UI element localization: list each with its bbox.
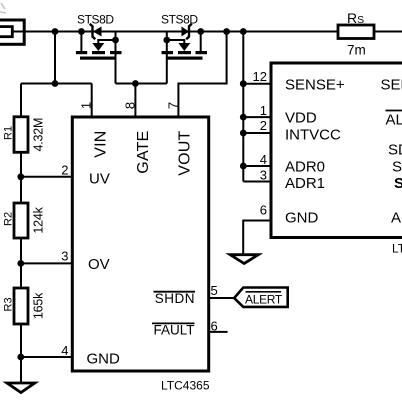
wire pin4 ADR0 [243, 165, 271, 167]
svg-text:SCL: SCL [394, 175, 402, 192]
node GATE junction dot [132, 80, 139, 87]
svg-text:ALERT: ALERT [386, 112, 402, 129]
wire Q2 drain stub [200, 32, 202, 53]
svg-text:4.32M: 4.32M [32, 118, 46, 152]
svg-text:8: 8 [122, 102, 137, 109]
svg-text:INTVCC: INTVCC [285, 127, 341, 144]
svg-text:6: 6 [260, 203, 267, 218]
svg-text:ADR1: ADR1 [285, 175, 325, 192]
node Q1 source junction dot on rail [78, 28, 85, 35]
Q1 body bar [92, 51, 105, 54]
resistor R2 [14, 203, 28, 238]
svg-text:12: 12 [253, 69, 267, 84]
svg-text:R1: R1 [3, 126, 15, 140]
resistor R3 [14, 288, 28, 324]
op-amp U1 LTC4365 box [72, 117, 208, 371]
Q1 source bar [76, 51, 87, 54]
node pin2 dot [240, 130, 247, 137]
Q2 body arrow [178, 43, 190, 51]
wire Q2 body tie [167, 40, 185, 43]
svg-text:SDAO: SDAO [392, 159, 402, 176]
node pin12 dot [240, 80, 247, 87]
svg-text:OV: OV [88, 256, 110, 273]
svg-text:STS8D: STS8D [161, 13, 198, 27]
svg-text:VOUT: VOUT [176, 130, 193, 175]
svg-text:7: 7 [165, 102, 180, 109]
Q2 drain bar [196, 51, 208, 54]
wire GATE net horizontal [116, 83, 167, 85]
wire R3 to ground [20, 324, 22, 383]
Q1 body arrow [92, 43, 104, 51]
svg-text:ADIN: ADIN [391, 210, 402, 227]
wire Rs right to edge [374, 31, 402, 33]
svg-text:SENSE: SENSE [381, 77, 402, 94]
svg-text:5: 5 [211, 283, 218, 298]
svg-text:SDAI: SDAI [388, 142, 402, 159]
wire pin6 GND down [243, 221, 271, 255]
wire Q1 body tie [98, 40, 115, 43]
svg-text:LTC2945: LTC2945 [392, 242, 402, 256]
wire VOUT net pin7 up and over to rail [178, 32, 226, 118]
svg-text:124k: 124k [32, 206, 46, 233]
svg-text:ALERT: ALERT [245, 293, 283, 307]
svg-text:165k: 165k [32, 292, 46, 319]
Q1 drain bar [110, 51, 122, 54]
svg-text:ADR0: ADR0 [285, 159, 325, 176]
svg-text:VDD: VDD [285, 110, 317, 127]
corner artifact gray glyph [0, 3, 6, 13]
node pin4 dot [240, 163, 247, 170]
svg-text:2: 2 [260, 118, 267, 133]
wire pin3 OV [21, 262, 71, 264]
svg-text:4: 4 [61, 343, 68, 358]
node Q2 drain junction dot on rail [197, 28, 204, 35]
node Q2 body tie dot [163, 37, 170, 44]
wire pin4 GND [21, 356, 71, 358]
resistor R1 [14, 117, 28, 153]
op-amp U2 LTC2945 box [271, 63, 402, 238]
wire pin12 SENSE+ [243, 83, 271, 85]
Q2 body diode [182, 27, 190, 37]
svg-text:VIN: VIN [93, 131, 110, 158]
Q2 source bar [162, 51, 174, 54]
Q1 gate bar [80, 57, 116, 60]
node pin1 dot [240, 114, 247, 121]
wire pin5 SHDN to ALERT flag [209, 297, 235, 299]
svg-text:2: 2 [61, 163, 68, 178]
wire pin2 UV [21, 176, 71, 178]
svg-text:R3: R3 [3, 297, 15, 311]
connector J1 input plug [0, 20, 24, 44]
wire Q1 source stub [80, 32, 82, 53]
wire pin2 INTVCC [243, 132, 271, 134]
node rail to bus junction dot [240, 28, 247, 35]
ground symbol right [230, 255, 258, 264]
svg-text:GND: GND [285, 210, 319, 227]
node VIN junction dot at rail x55 [52, 28, 59, 35]
wire right bus vertical [242, 32, 244, 182]
svg-text:7m: 7m [347, 43, 366, 58]
svg-text:UV: UV [89, 171, 110, 188]
node OV tap dot [17, 260, 24, 267]
node junction dot at (55,83.5) [52, 80, 59, 87]
wire horizontal VIN net to R1 and pin1 [21, 83, 92, 85]
svg-text:R2: R2 [3, 212, 15, 226]
svg-text:RS: RS [347, 10, 364, 26]
svg-text:GATE: GATE [135, 131, 152, 174]
node Q1 body tie dot [112, 37, 119, 44]
svg-text:1: 1 [79, 102, 94, 109]
transistor Q2 MOSFET [162, 24, 208, 84]
resistor Rs sense [338, 25, 374, 39]
ALERT flag symbol [234, 288, 288, 307]
svg-text:3: 3 [61, 249, 68, 264]
svg-text:SENSE+: SENSE+ [285, 77, 345, 94]
svg-text:FAULT: FAULT [153, 323, 194, 338]
svg-text:1: 1 [260, 103, 267, 118]
ground symbol left [7, 383, 35, 393]
svg-text:4: 4 [260, 152, 267, 167]
wire R1 to R2 [20, 152, 22, 203]
Q1 body diode [93, 27, 102, 37]
transistor Q1 MOSFET [76, 24, 122, 84]
Q2 gate bar [167, 57, 203, 60]
Q2 body bar [178, 51, 191, 54]
wire Q1 drain/gate stub [115, 32, 117, 84]
node GND tap dot [17, 354, 24, 361]
wire VIN tap down from rail [54, 32, 56, 84]
node UV tap dot [17, 173, 24, 180]
svg-text:SHDN: SHDN [155, 291, 195, 306]
wire pin6 FAULT stub [209, 331, 228, 333]
wire R2 to R3 [20, 238, 22, 288]
svg-text:STS8D: STS8D [77, 13, 114, 27]
svg-text:GND: GND [87, 351, 121, 368]
node VOUT junction dot on rail [223, 28, 230, 35]
wire Q2 gate/source stub [166, 32, 168, 84]
wire R1 top lead [20, 84, 22, 117]
wire pin1 VIN vertical into IC [91, 84, 93, 118]
wire top rail VIN to Rs [12, 31, 338, 33]
svg-text:3: 3 [260, 168, 267, 183]
wire pin1 VDD [243, 116, 271, 118]
wire pin8 GATE vertical into IC [134, 84, 136, 118]
svg-text:LTC4365: LTC4365 [161, 379, 210, 393]
